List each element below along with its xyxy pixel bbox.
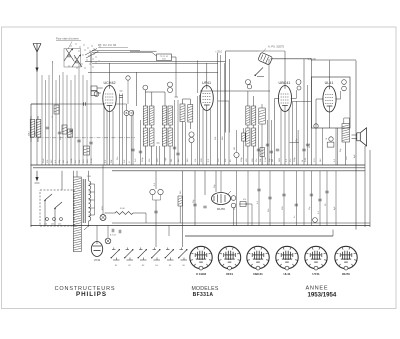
socket diagram UBC41 [247, 246, 269, 268]
wire osc link [152, 53, 157, 57]
svg-text:1,05 W: 1,05 W [308, 57, 317, 61]
wire v133 137 141 [132, 110, 134, 165]
wire x365 x370 [364, 146, 366, 227]
IF T2 winding 1a [246, 106, 250, 125]
IF T1b winding 1b [168, 106, 173, 125]
svg-text:0,5M: 0,5M [265, 157, 267, 162]
capacitor C22 [302, 148, 305, 150]
IF T2 winding 2b [252, 128, 256, 146]
svg-text:A. PU. 52075: A. PU. 52075 [268, 45, 284, 49]
capacitor C30 [193, 203, 196, 205]
wire v174 178 [174, 100, 176, 165]
box R52 [260, 148, 265, 157]
wire v267 271 274 [267, 120, 269, 165]
mains terminals [46, 218, 49, 221]
switch S5 [166, 250, 174, 258]
switch S6 [179, 250, 187, 258]
svg-text:UL41: UL41 [325, 81, 334, 85]
IF T2 winding 2a [246, 128, 250, 146]
input can B [188, 105, 193, 123]
svg-text:25nF: 25nF [43, 158, 45, 163]
wire grid line [31, 103, 103, 105]
switch S4 [152, 250, 160, 258]
input can A [180, 104, 185, 122]
dash-dot divider [30, 137, 135, 139]
IF T1 winding 2a [143, 128, 148, 146]
svg-text:≈ 25,0: ≈ 25,0 [215, 50, 223, 53]
mains switch a [45, 194, 52, 200]
diode det circle [234, 152, 239, 157]
fuse [115, 212, 133, 215]
antenna [33, 44, 37, 53]
pickup lever [256, 68, 264, 76]
wire UBC41 top [284, 51, 286, 86]
trimmer circle T1 [143, 85, 148, 90]
capacitor C2a [46, 126, 49, 128]
speaker LS [356, 133, 358, 141]
wire v304 307 311 [303, 59, 305, 165]
IF T1b winding 1a [162, 106, 167, 125]
wire v258 [258, 125, 260, 165]
trimmer pair T1b [168, 82, 173, 87]
wire UF41 drops [206, 111, 208, 166]
svg-text:B: B [126, 111, 128, 115]
wire UCH42 top [109, 63, 111, 86]
bus bottom 1 [31, 225, 371, 227]
mains selector box [40, 190, 74, 226]
bus hv [112, 170, 365, 172]
svg-text:Pour mise à la terre: Pour mise à la terre [56, 37, 79, 41]
transformer primary winding [73, 177, 81, 252]
IF T2 winding 1b [252, 106, 256, 125]
capacitor C2d [77, 139, 80, 141]
circle dh a [231, 196, 236, 201]
svg-text:UY41: UY41 [312, 272, 320, 276]
svg-text:1M: 1M [171, 159, 173, 162]
wire UCH42 grid [97, 87, 103, 89]
circle k1 [314, 124, 318, 128]
svg-text:TR. 12. 05: TR. 12. 05 [160, 56, 168, 58]
svg-text:UL41: UL41 [283, 272, 290, 276]
terminal blocks G [91, 86, 97, 91]
callout RT CU FU 66 [85, 49, 97, 56]
wire frame top left [226, 50, 259, 52]
socket diagram UY41 [305, 246, 327, 268]
pickup PU head [258, 52, 273, 65]
switch S1 [112, 250, 120, 258]
box B3 [68, 129, 73, 137]
socket diagram UL41 [276, 246, 298, 268]
lamp scale 2 [105, 238, 111, 244]
switch S3 [139, 250, 147, 258]
transformer secondary [89, 181, 91, 185]
svg-text:47k: 47k [243, 199, 246, 201]
wire x356 [355, 61, 357, 230]
wire coil taps [30, 116, 32, 120]
capacitor C10 [119, 95, 122, 97]
IF T1 winding 2b [150, 128, 155, 146]
IF T1b winding 2b [168, 128, 173, 146]
svg-text:0,5M: 0,5M [91, 158, 93, 163]
svg-text:UF41: UF41 [226, 272, 233, 276]
svg-text:U CH42: U CH42 [196, 272, 207, 276]
wire top bus 1 [92, 49, 140, 51]
capacitor C2c [69, 129, 72, 131]
capacitor C12 [131, 148, 134, 150]
trimmer circle T2 [247, 85, 251, 89]
wire IF2 bottom [247, 146, 249, 165]
svg-text:DH70: DH70 [342, 272, 350, 276]
wire frame top right [271, 58, 312, 60]
wire left block verticals [41, 75, 43, 165]
mains switch b [55, 202, 62, 208]
wire v336 [335, 128, 337, 165]
svg-text:R 40: R 40 [120, 208, 125, 210]
wire IF1 mid [145, 125, 147, 128]
tube UL41 [323, 86, 336, 112]
wire can AB [182, 99, 184, 104]
tube DH70 [212, 193, 231, 205]
bus bottom 2 [112, 222, 370, 224]
resistor R60 [178, 196, 183, 206]
capacitor C2b [58, 131, 61, 133]
wire v197 199 [197, 61, 199, 94]
capacitor C40 [310, 193, 313, 195]
svg-text:DH70: DH70 [217, 207, 225, 211]
capacitor C21 [266, 143, 269, 145]
wire IF2 top [247, 91, 249, 106]
box B4 [84, 146, 90, 155]
screen symbols B X [124, 111, 129, 116]
wire UF41 top [206, 63, 208, 86]
ganging dots [70, 45, 73, 48]
wire DH70 top [220, 171, 222, 193]
tube UCH42 [103, 86, 116, 112]
wire h142 [290, 142, 299, 144]
wire top bus 3 [88, 71, 218, 73]
wire left frame [30, 104, 32, 227]
transformer core [82, 179, 84, 223]
IF T1 winding 1b [150, 106, 155, 125]
wire UL41 bottom [329, 112, 331, 129]
wire mid drops [155, 171, 157, 189]
svg-text:110: 110 [44, 224, 47, 226]
svg-text:UY41: UY41 [94, 258, 101, 262]
svg-text:220: 220 [58, 224, 61, 226]
svg-text:1M: 1M [272, 159, 274, 162]
wire v185 [185, 122, 187, 165]
wire DH70 right [239, 203, 252, 205]
svg-text:50 41: 50 41 [162, 59, 166, 61]
circle rb [313, 218, 318, 223]
bus circles top [185, 235, 333, 237]
wire top bus 2 [85, 60, 226, 62]
wire IF1 bottom [145, 146, 147, 165]
lamp scale 1 [100, 215, 106, 221]
wire x218 x221 x225 x229 [217, 53, 219, 165]
tube UY41 rectifier [91, 242, 102, 257]
wire left stubs [52, 61, 54, 63]
svg-text:BF331A: BF331A [193, 292, 214, 298]
svg-text:B 7,34: B 7,34 [110, 235, 117, 237]
wire h101 [293, 100, 311, 102]
wire UCH42 drops [103, 103, 105, 165]
IF T1 winding 1a [143, 106, 148, 125]
wire OT taps [345, 142, 347, 165]
wire v119 [119, 94, 121, 166]
svg-text:RT. CU. FU. 66: RT. CU. FU. 66 [98, 43, 117, 47]
tuning frame [64, 49, 81, 68]
wire antenna down [36, 72, 38, 165]
wire UBC41 drops [284, 111, 286, 165]
svg-text:1M: 1M [234, 147, 236, 150]
screen pair S2 [189, 132, 194, 137]
wire v156 159 [156, 146, 158, 165]
variable capacitor CV2 [74, 55, 82, 67]
wire UL41 sides [316, 98, 324, 100]
box R51 [259, 108, 266, 124]
svg-text:PHILIPS: PHILIPS [76, 291, 107, 298]
capacitor C13 [173, 146, 176, 148]
screen circles UBC41 [246, 80, 251, 85]
box small B5 [242, 133, 246, 141]
wire mains entry [61, 171, 63, 190]
wire rb verticals [236, 171, 238, 226]
circle k2 [329, 137, 333, 141]
output transformer T3 [342, 124, 350, 143]
svg-text:UF41: UF41 [202, 81, 211, 85]
tube UBC41 [278, 86, 291, 112]
wire transformer taps [89, 183, 95, 185]
thermal pair [150, 189, 155, 194]
screen circles UL41 [342, 80, 347, 85]
svg-text:X: X [130, 111, 132, 115]
socket diagram DH70 [335, 246, 357, 268]
coil L1 [30, 120, 35, 138]
socket diagram U CH42 [190, 246, 212, 268]
svg-text:1M: 1M [63, 160, 65, 163]
svg-text:MODELES: MODELES [191, 286, 218, 292]
oscillator box TR [157, 54, 172, 61]
svg-text:145: 145 [51, 224, 54, 226]
wire UL41 top [329, 61, 331, 87]
osc trimmer circle [126, 76, 130, 80]
svg-text:70pF: 70pF [165, 157, 167, 162]
IF T1b winding 2a [162, 128, 167, 146]
bus components ps [84, 226, 89, 230]
bus heater 1 [31, 164, 366, 166]
wire v292 296 298 [292, 101, 294, 165]
ground main [36, 171, 38, 178]
tube UF41 [200, 86, 213, 111]
svg-text:1953/1954: 1953/1954 [308, 291, 337, 298]
capacitor C2e [89, 141, 92, 143]
box B1 [54, 105, 59, 114]
wire bus 91 [200, 90, 270, 92]
box B2 [62, 125, 67, 134]
coil L2 [36, 120, 41, 138]
wire frame verticals [225, 51, 227, 133]
wire v269 [268, 59, 270, 165]
svg-text:UBC41: UBC41 [253, 272, 263, 276]
switch S2 [125, 250, 133, 258]
frame UL41 [311, 77, 350, 128]
wire IF1 top [136, 72, 138, 106]
bus heater 2 [33, 167, 365, 169]
wire UBC41 sides [275, 98, 280, 100]
variable capacitor CV1 [66, 49, 74, 61]
socket diagram UF41 [218, 246, 240, 268]
svg-text:UBC41: UBC41 [279, 81, 291, 85]
